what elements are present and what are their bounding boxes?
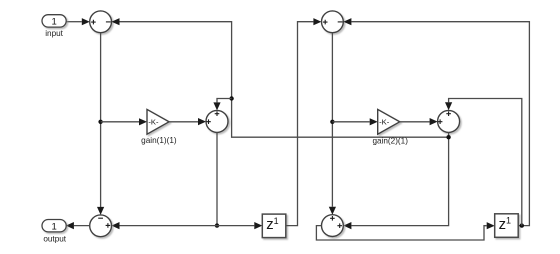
junction dot at sum1 output / gain1 branch xyxy=(98,120,102,124)
svg-text:1: 1 xyxy=(274,216,279,226)
svg-text:gain(1)(1): gain(1)(1) xyxy=(141,136,177,145)
svg-text:1: 1 xyxy=(51,17,56,28)
label input xyxy=(45,29,63,38)
junction dot stage2 to stage1 feedback xyxy=(446,135,450,139)
sum S3 (bottom left) xyxy=(90,215,112,237)
svg-text:z: z xyxy=(499,217,506,233)
label gain(1)(1) xyxy=(141,136,177,145)
wire stage1 feedback from sum4 junction to sum1 minus input xyxy=(112,18,449,137)
svg-text:z: z xyxy=(266,217,273,233)
svg-text:1: 1 xyxy=(506,216,511,226)
sum S1 xyxy=(90,11,112,33)
svg-text:output: output xyxy=(43,235,66,244)
junction dot at sum3 output / gain2 branch xyxy=(330,120,334,124)
wire z2 output feedback up to sum3 minus input xyxy=(343,18,529,226)
svg-text:gain(2)(1): gain(2)(1) xyxy=(372,136,408,145)
wire sum6 output detour to delay z2 xyxy=(316,222,494,240)
wire branch to gain1 xyxy=(101,118,147,125)
wire z1 output up to sum2 of stage2 xyxy=(286,18,322,226)
svg-text:-K-: -K- xyxy=(379,118,390,127)
wire sum3 output down to sum6 xyxy=(329,33,336,215)
label output xyxy=(43,235,66,244)
wire tap to sum2 plus top xyxy=(213,99,231,111)
wire sum5 to output port xyxy=(66,222,90,229)
junction dot bottom rail T xyxy=(215,223,219,227)
wire tap up and to sum4 plus top xyxy=(445,99,522,226)
unit delay block z1 xyxy=(262,214,286,238)
label gain(2)(1) xyxy=(372,136,408,145)
wire bottom rail to delay z1 xyxy=(217,222,262,229)
sum S2 xyxy=(206,110,228,132)
sum S5 (stage2 mid) xyxy=(438,110,460,132)
wire sum2 output down to bottom rail xyxy=(216,132,218,225)
gain block gain(2)(1) xyxy=(378,109,400,134)
wire input to sum1 xyxy=(66,18,90,25)
input port 1 xyxy=(42,15,66,28)
junction dot stage1 feedback tap xyxy=(229,96,233,100)
junction dot z2 output tap xyxy=(520,223,524,227)
sum S4 (stage2 top) xyxy=(322,11,344,33)
sum S6 (stage2 bottom) xyxy=(322,215,344,237)
unit delay block z2 xyxy=(495,214,519,238)
svg-text:-K-: -K- xyxy=(148,118,159,127)
wire sum1 output down to sum5 xyxy=(97,33,104,215)
svg-text:1: 1 xyxy=(51,221,56,232)
svg-text:input: input xyxy=(45,29,63,38)
wire sum4 output down and left to sum6 right xyxy=(343,132,448,229)
gain block gain(1)(1) xyxy=(147,109,169,134)
wire gain2 to sum5 of stage2 xyxy=(400,118,438,125)
wire bottom rail to sum5 right xyxy=(112,222,218,229)
wire branch to gain2 xyxy=(332,118,377,125)
output port 1 xyxy=(42,220,66,233)
wire gain1 to sum2 xyxy=(169,118,206,125)
